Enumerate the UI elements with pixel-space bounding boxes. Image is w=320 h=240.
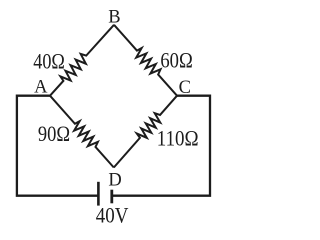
svg-text:D: D [108,170,121,190]
svg-text:60Ω: 60Ω [160,48,192,73]
svg-text:A: A [34,78,48,98]
svg-text:C: C [179,78,191,98]
svg-text:40V: 40V [96,202,129,227]
svg-text:40Ω: 40Ω [33,49,65,74]
svg-text:110Ω: 110Ω [157,125,199,150]
svg-text:90Ω: 90Ω [38,121,70,146]
svg-text:B: B [108,7,120,27]
